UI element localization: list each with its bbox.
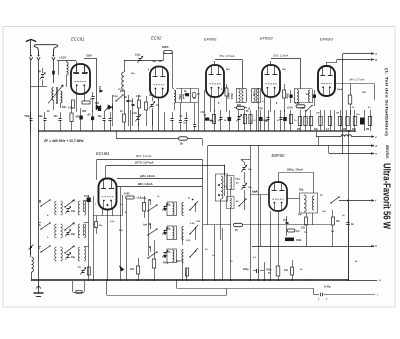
svg-text:2M: 2M <box>366 129 369 131</box>
svg-text:1000: 1000 <box>124 193 130 196</box>
svg-text:220µ: 220µ <box>243 268 249 271</box>
svg-text:440p: 440p <box>84 194 90 197</box>
svg-text:30p: 30p <box>39 115 44 118</box>
svg-text:70V, 4,5mA: 70V, 4,5mA <box>219 54 234 58</box>
svg-text:4p: 4p <box>38 69 41 73</box>
svg-text:24V, 0,7mA: 24V, 0,7mA <box>349 78 364 82</box>
svg-text:1mA: 1mA <box>252 191 257 194</box>
svg-text:EF89/3: EF89/3 <box>320 37 334 42</box>
svg-text:500: 500 <box>95 102 100 105</box>
svg-text:5-25: 5-25 <box>132 112 137 115</box>
svg-text:25n: 25n <box>120 91 125 93</box>
svg-text:0,1µ: 0,1µ <box>113 96 118 98</box>
svg-text:180µ: 180µ <box>178 94 181 100</box>
svg-text:ECC81: ECC81 <box>71 37 85 42</box>
svg-text:180p: 180p <box>235 179 241 181</box>
svg-text:15n: 15n <box>54 115 59 118</box>
svg-text:4,7k: 4,7k <box>300 107 305 110</box>
svg-text:50µA: 50µA <box>337 88 343 91</box>
svg-text:≈1V: ≈1V <box>200 111 205 114</box>
svg-text:81V, 3,2mA: 81V, 3,2mA <box>136 154 151 158</box>
svg-text:5-20: 5-20 <box>186 240 191 242</box>
svg-text:24V: 24V <box>362 91 366 94</box>
svg-text:100k: 100k <box>296 239 302 242</box>
svg-text:500p: 500p <box>25 115 31 118</box>
svg-text:Ant: Ant <box>143 223 147 226</box>
svg-text:900/5: 900/5 <box>162 45 169 49</box>
svg-text:50p: 50p <box>298 214 302 216</box>
svg-text:(1. Teil des Schaltbildes): (1. Teil des Schaltbildes) <box>385 68 389 136</box>
svg-text:600: 600 <box>82 109 87 113</box>
svg-text:0,47µ: 0,47µ <box>324 286 331 289</box>
svg-text:EBF80: EBF80 <box>272 153 285 158</box>
svg-text:15mA: 15mA <box>98 86 102 93</box>
svg-text:15mA: 15mA <box>230 93 233 100</box>
svg-text:29Va, 17mA: 29Va, 17mA <box>287 167 304 171</box>
svg-text:300µ: 300µ <box>286 93 289 99</box>
svg-text:5mA: 5mA <box>182 94 185 99</box>
svg-text:1M: 1M <box>336 113 339 115</box>
svg-text:M: M <box>39 202 41 204</box>
svg-text:15p: 15p <box>152 61 156 63</box>
svg-text:∆77V, 0,07mA: ∆77V, 0,07mA <box>135 161 154 165</box>
svg-text:U: U <box>188 197 190 200</box>
svg-text:EF89/1: EF89/1 <box>204 37 217 42</box>
svg-text:1m: 1m <box>90 99 93 101</box>
svg-text:5-20: 5-20 <box>190 223 195 225</box>
svg-text:30n: 30n <box>130 268 135 271</box>
svg-text:40V: 40V <box>176 260 181 263</box>
svg-text:10n: 10n <box>284 269 289 272</box>
svg-text:50p: 50p <box>299 189 304 192</box>
svg-text:2M: 2M <box>143 198 146 200</box>
svg-text:10n: 10n <box>356 114 360 116</box>
svg-text:ZF = 468 KHz + 10,7 MHz: ZF = 468 KHz + 10,7 MHz <box>43 139 84 143</box>
svg-text:10p: 10p <box>248 169 252 171</box>
svg-text:0,1µ: 0,1µ <box>110 221 115 223</box>
svg-text:+21V: +21V <box>59 56 66 60</box>
svg-text:15µ: 15µ <box>98 115 103 118</box>
svg-text:1M: 1M <box>336 220 339 223</box>
svg-text:∆9V, 4,6mA: ∆9V, 4,6mA <box>140 174 155 178</box>
svg-text:EC92: EC92 <box>151 36 162 41</box>
svg-text:0,1µ: 0,1µ <box>258 108 263 110</box>
svg-text:Ultra-Favorit 56 W: Ultra-Favorit 56 W <box>381 163 392 229</box>
svg-text:ECH81: ECH81 <box>96 151 110 156</box>
svg-text:450µ: 450µ <box>163 262 169 265</box>
svg-text:1,5k: 1,5k <box>136 95 141 98</box>
svg-text:h: h <box>375 244 377 248</box>
svg-text:g: g <box>374 58 377 62</box>
svg-text:12k: 12k <box>301 227 306 230</box>
svg-text:2,2p: 2,2p <box>135 53 141 57</box>
svg-text:6,8k: 6,8k <box>295 103 300 105</box>
svg-text:EF89/2: EF89/2 <box>260 36 274 41</box>
svg-text:3n: 3n <box>351 223 354 226</box>
svg-text:4,7k: 4,7k <box>68 107 73 110</box>
svg-text:1m: 1m <box>296 230 299 233</box>
svg-text:d: d <box>375 144 377 148</box>
svg-text:±0,5V: ±0,5V <box>287 107 293 109</box>
svg-text:96V, 1,6mA: 96V, 1,6mA <box>138 182 153 186</box>
svg-text:10p: 10p <box>248 187 252 189</box>
svg-text:40p: 40p <box>71 210 76 213</box>
svg-text:40p: 40p <box>71 256 76 259</box>
svg-text:47µ: 47µ <box>283 219 288 222</box>
svg-text:Service:: Service: <box>385 145 390 159</box>
svg-text:105+: 105+ <box>86 54 93 58</box>
svg-text:40p: 40p <box>71 233 76 236</box>
svg-text:7%: 7% <box>304 232 307 234</box>
svg-text:30n: 30n <box>99 225 103 227</box>
svg-text:20V, 1,5mA: 20V, 1,5mA <box>273 54 288 58</box>
svg-text:25n: 25n <box>131 73 135 75</box>
